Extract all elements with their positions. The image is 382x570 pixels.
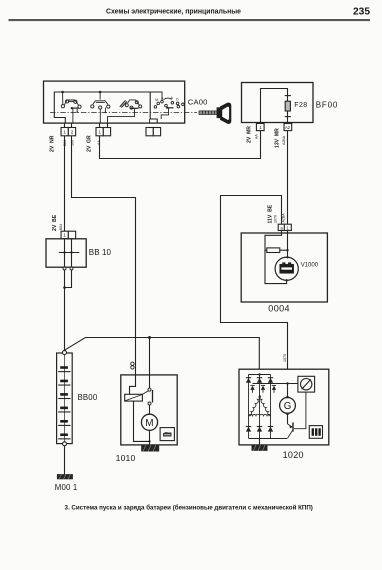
alternator ground block	[252, 445, 268, 451]
svg-text:0004: 0004	[268, 304, 290, 314]
wire: battery positive cable	[65, 338, 260, 370]
BF00 internal wire	[261, 89, 288, 123]
battery BB00	[57, 353, 73, 444]
coil return wire	[134, 401, 150, 441]
svg-text:G: G	[284, 401, 292, 412]
starter motor M	[141, 414, 157, 430]
battery cell	[60, 366, 68, 369]
svg-text:3. Система пуска и заряда бата: 3. Система пуска и заряда батареи (бензи…	[65, 504, 313, 511]
rectifier negative rail	[249, 438, 288, 440]
starter ground block	[141, 445, 159, 452]
switch contact group 2	[91, 92, 110, 123]
svg-text:13V MR: 13V MR	[275, 128, 281, 148]
ignition switch CA00 box	[44, 81, 185, 123]
svg-text:2: 2	[71, 130, 74, 135]
svg-text:B84: B84	[59, 224, 63, 230]
0004 pin 1	[284, 224, 291, 230]
svg-text:2V NR: 2V NR	[50, 135, 56, 152]
rotor G	[287, 384, 289, 398]
header rule	[9, 19, 371, 21]
svg-text:A2: A2	[285, 125, 291, 130]
resistor (parallel with lamp)	[265, 248, 288, 253]
svg-text:A2BA: A2BA	[282, 135, 286, 145]
solenoid actuating arrow	[142, 391, 148, 395]
svg-text:1: 1	[63, 130, 66, 135]
alternator ground stub	[259, 439, 261, 445]
svg-text:A2BA: A2BA	[282, 213, 286, 223]
connector 2V NR pins 1,2	[64, 123, 66, 127]
engine ground icon box	[309, 426, 322, 439]
svg-text:2V MR: 2V MR	[247, 126, 253, 143]
battery cell	[60, 393, 68, 396]
starter motor unit 1010 box	[121, 375, 177, 445]
battery junction box BB10	[46, 239, 86, 267]
bus junction node (contact 2)	[99, 91, 102, 94]
regulator	[298, 376, 315, 392]
junction node at starter feed	[148, 336, 151, 339]
CA00 internal supply bus	[54, 92, 157, 123]
chassis icon box	[160, 428, 174, 441]
excitation diode rail	[253, 383, 298, 385]
bus junction node (contact 1)	[61, 91, 64, 94]
BF00 pin 1	[256, 124, 264, 131]
battery warning lamp V1000	[275, 257, 298, 280]
lamp terminal nubs	[286, 256, 288, 258]
battery cell	[60, 407, 68, 410]
solenoid feed inside box	[130, 375, 136, 394]
main diodes (bottom row)	[246, 426, 251, 428]
svg-text:1070: 1070	[283, 354, 287, 362]
svg-text:1: 1	[98, 130, 101, 135]
svg-text:1070: 1070	[273, 215, 277, 223]
stator windings (delta)	[249, 395, 271, 415]
svg-text:AA: AA	[97, 140, 101, 145]
svg-text:BB00: BB00	[78, 393, 98, 402]
battery cell	[60, 420, 68, 423]
svg-text:BF00: BF00	[316, 101, 338, 110]
svg-text:1: 1	[63, 233, 66, 238]
lamp feed wire inside 0004	[287, 233, 289, 257]
svg-text:235: 235	[353, 7, 370, 18]
wire: warning lamp to alternator (net 1070)	[221, 196, 288, 370]
rectifier positive rail	[249, 374, 271, 376]
BB10 output terminals	[63, 267, 66, 270]
wire: BB10 to battery	[64, 270, 66, 350]
svg-text:F28: F28	[294, 102, 307, 109]
connector pins (unused pair)	[146, 128, 153, 136]
wire: fuse output A2 down to cluster 0004	[287, 131, 289, 225]
switch contact group 3	[108, 100, 142, 123]
BF00 pin A2	[284, 124, 292, 131]
wire: cable branch to starter	[149, 338, 151, 375]
0004 pin a	[278, 224, 284, 230]
fuse F28	[285, 96, 291, 117]
wire: ignition + feed, 2V GR pin1 to BF00 pin 1	[100, 131, 261, 159]
svg-text:2V GR: 2V GR	[87, 135, 93, 152]
connector 2V GR pin 1	[99, 123, 101, 127]
rectifier columns	[248, 374, 250, 438]
svg-text:1: 1	[259, 125, 262, 130]
switch contact group 1	[61, 92, 81, 123]
svg-text:1020: 1020	[283, 450, 304, 460]
svg-text:2V BE: 2V BE	[52, 214, 58, 231]
centerline (rotation axis)	[50, 112, 197, 114]
alternator 1020 box	[239, 369, 329, 445]
svg-text:M: M	[145, 418, 153, 429]
instrument cluster 0004 box	[241, 233, 327, 302]
solenoid relay coil	[125, 394, 143, 401]
switch contact group 4 (key positions)	[150, 92, 185, 123]
svg-text:M00 1: M00 1	[55, 483, 78, 492]
key symbol	[199, 103, 231, 124]
ground block M001	[57, 474, 73, 479]
svg-text:1010: 1010	[116, 453, 136, 463]
svg-text:AA: AA	[255, 134, 259, 139]
main diodes (top row)	[246, 377, 251, 379]
wire from pin a around to lamp bottom	[265, 233, 287, 284]
inline connector on starter control wire	[131, 362, 134, 365]
wire: battery + from CA00 pin1 to BB10	[64, 136, 66, 231]
wire: battery negative to ground	[64, 446, 66, 474]
svg-text:0: 0	[161, 96, 163, 100]
0004 pin stubs	[281, 231, 283, 234]
battery cell	[60, 380, 68, 383]
svg-text:V1000: V1000	[301, 262, 319, 268]
svg-text:BB 10: BB 10	[89, 248, 112, 257]
BB10 internal wires	[59, 239, 80, 267]
regulator output wire	[294, 392, 306, 429]
excitation diodes (trio)	[250, 384, 254, 386]
wire: starter control from CA00 pin2 to solenoid	[72, 136, 136, 375]
battery terminal circles	[63, 351, 67, 355]
solenoid contact	[149, 375, 151, 388]
motor ground wire	[149, 430, 151, 445]
regulator transistor	[288, 414, 294, 438]
svg-text:100: 100	[70, 140, 74, 146]
fuse box BF00	[242, 83, 314, 123]
wire: BB10 right output looping to battery feed	[65, 270, 72, 288]
svg-text:M: M	[155, 98, 158, 102]
svg-text:CA00: CA00	[188, 98, 208, 107]
svg-text:Схемы электрические, принципал: Схемы электрические, принципальные	[106, 9, 241, 16]
battery cell	[60, 433, 68, 436]
BB10 pins	[61, 231, 68, 239]
